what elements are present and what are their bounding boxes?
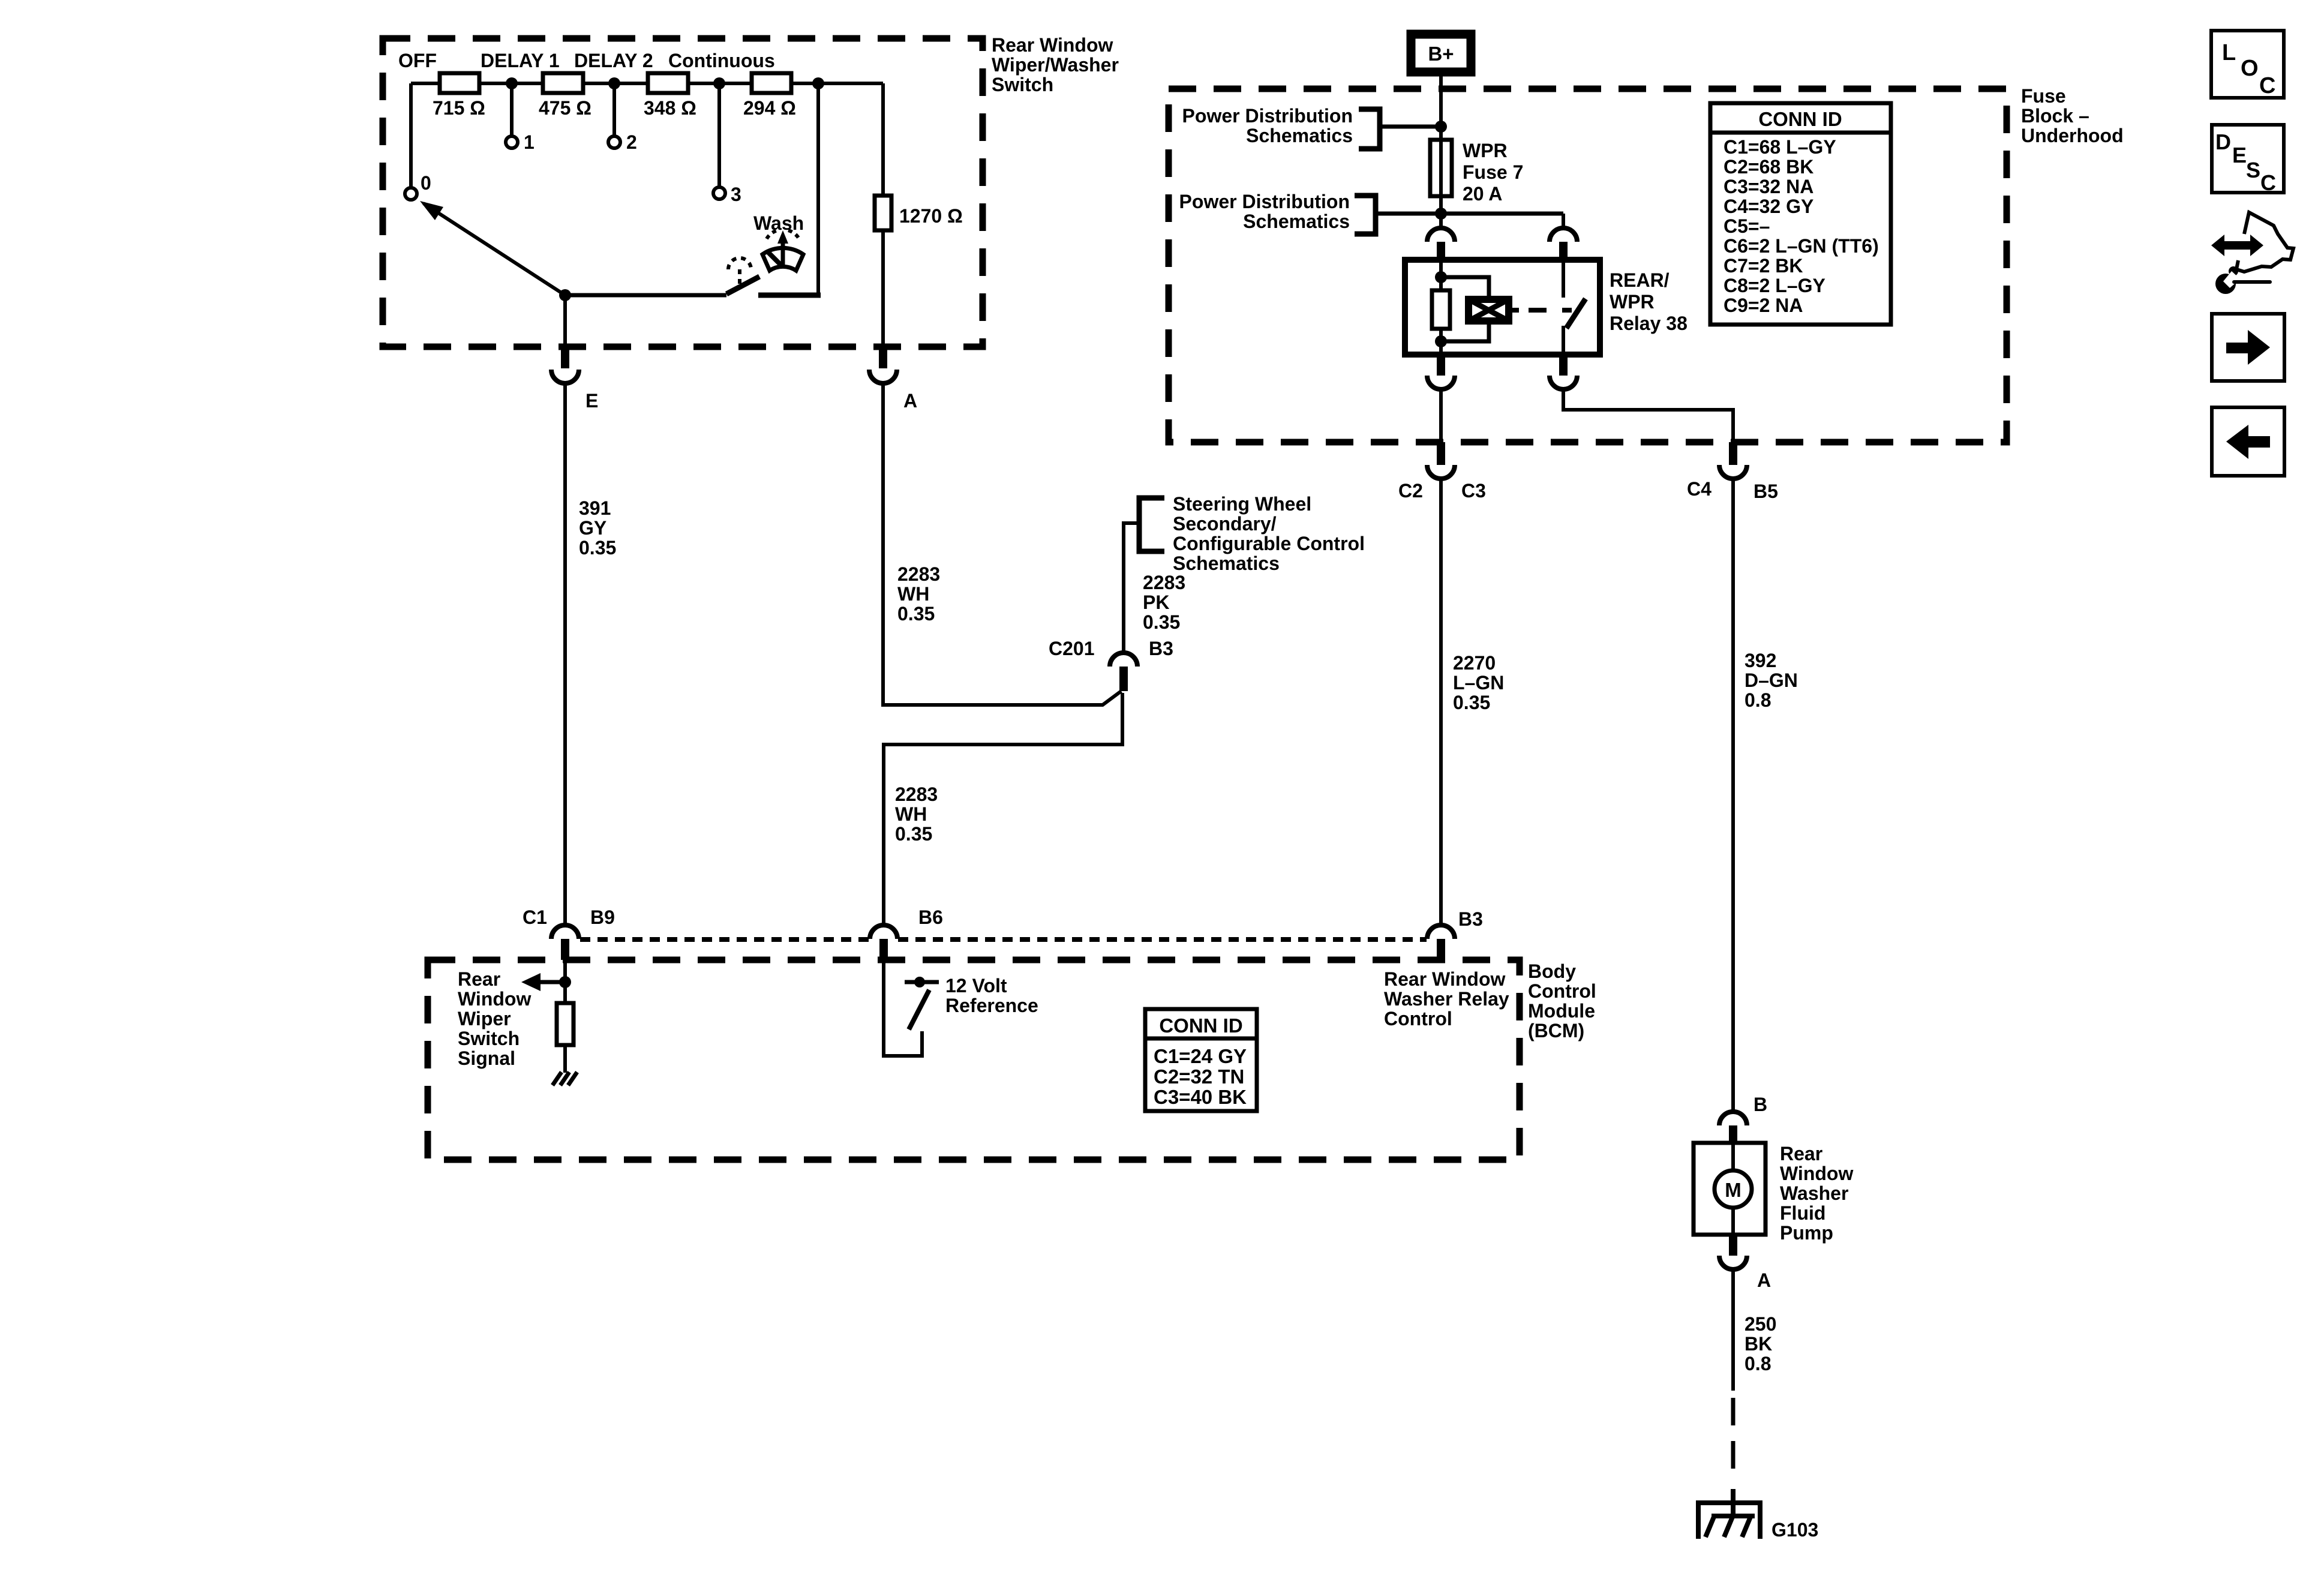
icon: forward arrow box	[2212, 314, 2284, 381]
svg-text:E: E	[2232, 143, 2247, 167]
svg-text:20 A: 20 A	[1463, 183, 1502, 205]
12V reference switch blade	[909, 990, 929, 1029]
svg-text:Schematics: Schematics	[1246, 125, 1353, 146]
BCM internal dotted boundary	[580, 937, 869, 942]
svg-text:0.35: 0.35	[897, 603, 935, 625]
connector B6: stub	[879, 939, 888, 960]
svg-text:C2=68 BK: C2=68 BK	[1724, 156, 1813, 178]
svg-text:Fluid: Fluid	[1780, 1202, 1825, 1224]
fuse block CONN ID table	[1710, 103, 1891, 325]
icon: DESC box	[2212, 125, 2284, 193]
connector B3 (BCM): stub	[1437, 939, 1445, 960]
wire: switch resistor ladder bus	[411, 82, 883, 85]
connector A: stub	[879, 347, 887, 368]
svg-text:0.35: 0.35	[1453, 692, 1490, 713]
contact 2	[608, 136, 620, 148]
wire: from bus corner down to 1270 resistor	[881, 83, 885, 196]
bracket: power distribution upper	[1359, 109, 1380, 149]
connector C201 B3: cap	[1110, 653, 1137, 667]
resistor 1270 ohm	[875, 196, 891, 230]
wire 250 BK 0.8: pump A to ground	[1731, 1269, 1735, 1391]
relay terminal cap (coil top)	[1427, 228, 1455, 242]
svg-text:391: 391	[579, 497, 611, 519]
relay contact fixed post	[1562, 260, 1565, 298]
svg-text:Power Distribution: Power Distribution	[1179, 191, 1350, 212]
wire: ground stub	[1731, 1489, 1736, 1516]
svg-text:250: 250	[1744, 1313, 1776, 1335]
connector B (pump): stub	[1729, 1125, 1737, 1143]
relay coil branch wire	[1439, 260, 1443, 290]
svg-text:L: L	[2222, 40, 2236, 65]
resistor 475 ohm	[543, 73, 583, 93]
wire: 1270 resistor to pin A	[881, 230, 885, 347]
svg-text:12 Volt: 12 Volt	[945, 975, 1007, 996]
connector B3 (BCM): cap	[1427, 925, 1455, 939]
svg-text:C2: C2	[1398, 480, 1423, 502]
icon: back arrow box	[2212, 407, 2284, 476]
svg-text:2283: 2283	[897, 563, 940, 585]
svg-text:B3: B3	[1149, 638, 1173, 659]
wire 2283 PK 0.35: B3 up to steering bracket	[1124, 523, 1139, 653]
svg-text:Power Distribution: Power Distribution	[1182, 105, 1353, 127]
svg-text:(BCM): (BCM)	[1528, 1020, 1584, 1041]
svg-text:Fuse 7: Fuse 7	[1463, 161, 1523, 183]
svg-text:C1=68 L–GY: C1=68 L–GY	[1724, 136, 1836, 158]
svg-text:0.35: 0.35	[895, 823, 932, 845]
svg-text:WPR: WPR	[1463, 140, 1508, 161]
icon: LOC box	[2211, 31, 2284, 98]
svg-text:Schematics: Schematics	[1243, 211, 1350, 232]
svg-text:WH: WH	[897, 583, 929, 605]
relay terminal stub (coil bottom)	[1437, 355, 1445, 376]
svg-text:PK: PK	[1143, 592, 1169, 613]
svg-text:C2=32 TN: C2=32 TN	[1154, 1065, 1244, 1088]
svg-text:Wiper/Washer: Wiper/Washer	[992, 54, 1119, 76]
svg-text:348 Ω: 348 Ω	[644, 97, 696, 119]
rear window washer fluid pump box	[1694, 1143, 1765, 1235]
svg-text:Continuous: Continuous	[668, 50, 775, 71]
svg-text:Washer Relay: Washer Relay	[1384, 988, 1509, 1010]
wire 2283 WH 0.35: A down and over to C201 B3	[883, 383, 1121, 705]
svg-text:Module: Module	[1528, 1000, 1595, 1022]
wire: B3 tee down to BCM B6	[884, 693, 1122, 925]
relay coil resistor	[1432, 290, 1450, 329]
node: 12V contact dot	[914, 977, 925, 987]
connector C2 C3: cup	[1427, 465, 1455, 479]
wire: tap 2 stub	[612, 83, 616, 136]
connector A: cup	[869, 370, 897, 383]
wash wiper icon	[762, 248, 803, 271]
svg-text:Block –: Block –	[2021, 105, 2089, 127]
battery feed B+ box	[1411, 34, 1471, 72]
svg-text:Switch: Switch	[992, 74, 1053, 95]
svg-text:B9: B9	[590, 906, 615, 928]
svg-text:WPR: WPR	[1610, 291, 1655, 313]
svg-text:DELAY 1: DELAY 1	[481, 50, 560, 71]
svg-text:0: 0	[421, 172, 431, 194]
connector A (pump): stub	[1729, 1235, 1737, 1256]
svg-text:A: A	[903, 390, 917, 412]
svg-text:REAR/: REAR/	[1610, 269, 1670, 291]
connector E: cup	[551, 370, 579, 383]
svg-text:C1: C1	[523, 906, 547, 928]
ground G103	[1696, 1500, 1762, 1505]
wire 391 GY 0.35: E down to C1	[563, 383, 567, 925]
connector C1 B9: stub	[561, 939, 569, 960]
svg-text:CONN ID: CONN ID	[1758, 108, 1842, 130]
node: coil bottom junction	[1435, 335, 1447, 347]
wire: pump internal bottom	[1731, 1208, 1735, 1235]
icon: wrench	[2215, 274, 2236, 294]
connector C2 C3: stub	[1437, 442, 1445, 465]
svg-text:Reference: Reference	[945, 995, 1038, 1016]
connector B6: cap	[870, 925, 897, 939]
svg-text:B+: B+	[1428, 43, 1454, 65]
wire: signal branch to left arrow	[539, 980, 565, 984]
wire: pump internal top	[1731, 1143, 1735, 1170]
svg-text:Signal: Signal	[458, 1047, 515, 1069]
svg-text:OFF: OFF	[398, 50, 437, 71]
svg-text:DELAY 2: DELAY 2	[574, 50, 653, 71]
relay actuator pigtail	[1509, 308, 1519, 313]
svg-text:Washer: Washer	[1780, 1182, 1848, 1204]
svg-text:0.35: 0.35	[1143, 611, 1180, 633]
svg-text:Wash: Wash	[753, 212, 804, 234]
svg-text:294 Ω: 294 Ω	[743, 97, 796, 119]
svg-text:Pump: Pump	[1780, 1222, 1833, 1244]
connector C4 B5: cup	[1719, 465, 1747, 479]
detent dashed linkage	[728, 258, 751, 269]
svg-text:2: 2	[626, 131, 637, 153]
resistor 294 ohm	[752, 73, 791, 93]
wiper arm with arrowhead pointing at contact 0	[424, 203, 565, 295]
svg-text:Underhood: Underhood	[2021, 125, 2124, 146]
relay terminal stub (contact bottom)	[1559, 355, 1568, 376]
rear window wiper/washer switch dashed enclosure	[383, 38, 983, 347]
relay terminal stub (contact top)	[1559, 242, 1568, 260]
chassis ground (BCM internal)	[553, 1072, 562, 1085]
svg-text:C6=2 L–GN (TT6): C6=2 L–GN (TT6)	[1724, 235, 1879, 257]
svg-text:0.35: 0.35	[579, 537, 616, 559]
relay coil X-box	[1469, 299, 1509, 321]
wire: wash fixed contact foot	[758, 293, 821, 298]
relay terminal stub (coil top)	[1437, 242, 1445, 260]
relay contact output	[1562, 326, 1565, 355]
wire: tap 1 stub	[510, 83, 514, 136]
wire: resistor to chassis ground	[563, 1045, 567, 1073]
fuse block underhood dashed enclosure	[1169, 89, 2007, 442]
relay actuator dashed link	[1529, 308, 1572, 313]
svg-text:Body: Body	[1528, 960, 1576, 982]
svg-text:C4=32 GY: C4=32 GY	[1724, 196, 1813, 217]
relay operate coil box branch	[1441, 277, 1489, 299]
node: junction after 294 / wash contact feed	[812, 77, 824, 89]
svg-text:Schematics: Schematics	[1173, 553, 1280, 574]
resistor: BCM pull-up	[557, 1003, 574, 1045]
svg-text:Rear: Rear	[1780, 1143, 1822, 1164]
svg-text:2270: 2270	[1453, 652, 1496, 674]
wash switch blade (open)	[726, 277, 759, 294]
svg-text:M: M	[1725, 1179, 1742, 1201]
svg-text:Rear: Rear	[458, 968, 500, 990]
BCM dashed enclosure	[428, 960, 1520, 1160]
wire: wash switch feed	[565, 293, 726, 298]
relay contact blade (open)	[1566, 299, 1586, 328]
wire: bracket to B+ feed	[1380, 125, 1441, 129]
node: wiper arm pivot junction	[559, 289, 571, 301]
svg-text:CONN ID: CONN ID	[1159, 1014, 1242, 1037]
svg-text:715 Ω: 715 Ω	[433, 97, 485, 119]
wire: C1 into BCM	[563, 960, 567, 1003]
wire: wiper pivot to pin E	[563, 295, 567, 347]
node: junction after 715	[506, 77, 518, 89]
svg-text:C: C	[2259, 73, 2275, 98]
svg-text:Wiper: Wiper	[458, 1008, 511, 1029]
svg-text:475 Ω: 475 Ω	[539, 97, 591, 119]
node: junction below fuse	[1435, 208, 1447, 220]
svg-text:E: E	[585, 390, 598, 412]
wire: relay contact output over and down to C4	[1563, 389, 1733, 442]
svg-text:D–GN: D–GN	[1744, 670, 1798, 691]
svg-text:WH: WH	[895, 803, 927, 825]
fuse WPR Fuse 7 20A	[1430, 140, 1452, 196]
connector B (pump): cap	[1719, 1112, 1747, 1125]
svg-text:C3: C3	[1461, 480, 1486, 502]
connector A (pump): cup	[1719, 1256, 1747, 1269]
connector C1 B9: cap	[551, 925, 579, 939]
svg-text:Rear Window: Rear Window	[992, 34, 1113, 56]
svg-text:GY: GY	[579, 517, 606, 539]
wire: stub down to OFF contact 0	[409, 83, 413, 188]
svg-text:D: D	[2215, 130, 2231, 154]
wire: dashed ground run	[1731, 1398, 1736, 1484]
wire: relay coil return down to C2	[1439, 389, 1443, 442]
svg-text:C: C	[2260, 170, 2276, 195]
node: junction above fuse	[1435, 121, 1447, 133]
connector C4 B5: stub	[1729, 442, 1737, 465]
svg-text:Rear Window: Rear Window	[1384, 968, 1506, 990]
resistor 348 ohm	[648, 73, 688, 93]
svg-text:1270 Ω: 1270 Ω	[899, 205, 963, 227]
svg-text:0.8: 0.8	[1744, 1353, 1771, 1374]
bracket: steering wheel schematics reference	[1139, 498, 1164, 551]
contact 3	[713, 187, 725, 199]
relay terminal cap (contact top)	[1550, 228, 1577, 242]
svg-text:Switch: Switch	[458, 1028, 520, 1049]
svg-text:Control: Control	[1384, 1008, 1452, 1029]
node: coil top junction	[1435, 271, 1447, 283]
wire: fuse output bus over to relay coil+contact	[1376, 212, 1563, 216]
svg-text:C1=24 GY: C1=24 GY	[1154, 1045, 1247, 1067]
relay REAR/WPR Relay 38 box	[1405, 260, 1600, 355]
svg-text:C7=2 BK: C7=2 BK	[1724, 255, 1803, 277]
svg-text:C3=32 NA: C3=32 NA	[1724, 176, 1813, 197]
wire: wash fixed contact drop	[816, 83, 820, 294]
bracket: power distribution lower	[1355, 196, 1376, 234]
node: signal junction	[559, 976, 571, 988]
svg-text:C9=2 NA: C9=2 NA	[1724, 295, 1803, 316]
svg-text:1: 1	[524, 131, 535, 153]
svg-text:B6: B6	[918, 906, 943, 928]
wire: B6 into 12V reference switch	[884, 960, 922, 1056]
svg-text:S: S	[2246, 158, 2260, 182]
wire: coil bottom	[1439, 329, 1443, 355]
svg-text:2283: 2283	[895, 784, 938, 805]
relay terminal cup (contact bottom)	[1550, 376, 1577, 389]
motor M circle	[1715, 1170, 1752, 1208]
12V reference contact	[905, 980, 939, 984]
svg-text:2283: 2283	[1143, 572, 1185, 593]
resistor 715 ohm	[440, 73, 479, 93]
svg-text:G103: G103	[1771, 1519, 1818, 1541]
svg-text:Control: Control	[1528, 980, 1596, 1002]
node: junction after 348	[713, 77, 725, 89]
svg-text:Window: Window	[1780, 1163, 1853, 1184]
svg-text:B5: B5	[1753, 481, 1778, 502]
svg-text:3: 3	[731, 184, 741, 205]
svg-text:Window: Window	[458, 988, 531, 1010]
svg-text:C3=40 BK: C3=40 BK	[1154, 1086, 1247, 1108]
svg-text:Configurable Control: Configurable Control	[1173, 533, 1365, 554]
node: junction after 475	[608, 77, 620, 89]
svg-text:A: A	[1757, 1269, 1771, 1291]
svg-text:C4: C4	[1687, 478, 1712, 500]
contact 1	[506, 136, 518, 148]
BCM CONN ID table	[1145, 1009, 1257, 1111]
relay terminal cup (coil bottom)	[1427, 376, 1455, 389]
connector C201 B3: stub	[1119, 667, 1128, 691]
svg-text:BK: BK	[1744, 1333, 1772, 1355]
icon: vehicle navigate double arrow	[2211, 235, 2263, 256]
svg-text:O: O	[2241, 56, 2259, 81]
svg-text:Relay 38: Relay 38	[1610, 313, 1688, 334]
connector E: stub	[561, 347, 569, 368]
wire: tap 3 stub	[717, 83, 721, 187]
svg-text:B: B	[1753, 1094, 1767, 1115]
wire 392 D-GN 0.8: B5 down to pump B	[1731, 479, 1735, 1112]
wire 2270 L-GN 0.35: C3 down to BCM B3	[1439, 479, 1443, 925]
svg-text:Steering Wheel: Steering Wheel	[1173, 493, 1311, 515]
svg-text:Secondary/: Secondary/	[1173, 513, 1277, 535]
svg-text:Fuse: Fuse	[2021, 85, 2066, 107]
svg-text:B3: B3	[1458, 908, 1483, 930]
wire: coil feed drop	[1439, 214, 1443, 229]
wire: B+ down to fuse	[1439, 72, 1443, 214]
svg-text:0.8: 0.8	[1744, 689, 1771, 711]
svg-text:C5=–: C5=–	[1724, 215, 1770, 237]
wire: contact feed drop	[1562, 214, 1565, 229]
contact 0	[405, 188, 417, 200]
svg-text:L–GN: L–GN	[1453, 672, 1504, 694]
svg-text:C201: C201	[1049, 638, 1095, 659]
svg-text:C8=2 L–GY: C8=2 L–GY	[1724, 275, 1825, 296]
svg-text:392: 392	[1744, 650, 1776, 671]
icon: vehicle outline	[2236, 212, 2293, 272]
